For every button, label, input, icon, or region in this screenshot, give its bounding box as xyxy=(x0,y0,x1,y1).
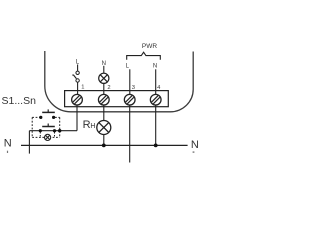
enclosure outline xyxy=(45,51,193,112)
svg-text:N: N xyxy=(4,137,12,149)
button S1 (top) xyxy=(39,116,42,119)
svg-text:R: R xyxy=(83,119,91,131)
terminal 2 screw xyxy=(98,94,109,105)
wire terminal 3 down xyxy=(129,105,131,163)
svg-text:4: 4 xyxy=(157,85,161,91)
svg-text:3: 3 xyxy=(132,85,135,91)
svg-text:H: H xyxy=(90,123,95,130)
wire L stub to switch xyxy=(77,65,79,71)
lamp E1 (above terminal 2) xyxy=(99,73,109,83)
terminal 3 screw xyxy=(124,94,135,105)
lamp RH xyxy=(97,121,111,135)
svg-text:S1...Sn: S1...Sn xyxy=(2,95,37,107)
svg-text:PWR: PWR xyxy=(142,43,157,50)
wire terminal 2 down xyxy=(103,105,105,121)
switch S upper contact xyxy=(76,71,79,74)
bracket PWR xyxy=(127,52,161,60)
switch S lower contact xyxy=(76,79,79,82)
wire rail end down xyxy=(28,131,30,154)
switch S lever xyxy=(72,75,76,79)
svg-text:N: N xyxy=(153,63,157,69)
svg-text:L: L xyxy=(126,63,130,69)
terminal 4 screw xyxy=(150,94,161,105)
wire terminal 1 down xyxy=(76,105,78,131)
terminal 1 screw xyxy=(72,94,83,105)
wire lamp to terminal 2 xyxy=(103,83,105,96)
wire N bus xyxy=(21,144,188,146)
dashed box illuminated button Sn xyxy=(32,117,60,137)
wire L to terminal 3 xyxy=(129,69,131,96)
terminal block xyxy=(65,91,169,107)
node lamp RH / N bus xyxy=(102,144,106,148)
button Sn (in box) xyxy=(42,126,55,128)
wire N stub to lamp xyxy=(103,66,105,74)
wire rail buttons to terminal 1 xyxy=(29,130,77,132)
wire dashed neon taps xyxy=(40,132,54,137)
wire switch to terminal 1 xyxy=(77,82,79,96)
node terminal 4 / N bus xyxy=(154,144,158,148)
svg-text:N: N xyxy=(191,139,199,151)
wire lamp RH to N bus xyxy=(103,135,105,146)
neon lamp in button xyxy=(45,134,51,140)
svg-text:1: 1 xyxy=(81,84,84,90)
wire N to terminal 4 xyxy=(155,69,157,96)
wire terminal 4 to N bus xyxy=(155,105,157,145)
svg-text:2: 2 xyxy=(107,85,110,91)
node rail / box edge xyxy=(58,129,61,132)
